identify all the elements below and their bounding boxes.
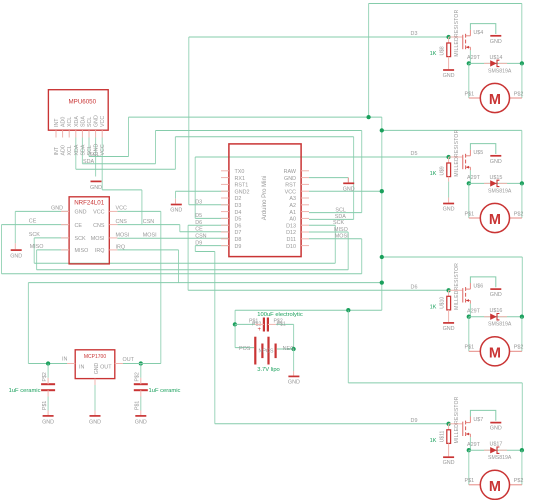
svg-text:SMS819A: SMS819A [488,68,512,74]
svg-text:GND: GND [490,426,502,432]
wire GND drop [14,211,16,243]
stub C3 right [268,323,276,325]
ground right of Arduino [343,183,355,192]
svg-text:D3: D3 [235,203,242,209]
svg-text:GND: GND [443,326,455,332]
svg-text:D6: D6 [235,223,242,229]
wire VCC right to trunk [309,190,382,192]
pin stub Arduino right [301,231,309,233]
pin stub Arduino left [221,245,229,247]
ground transistor U$5 [490,156,502,165]
IC MPU6050 [48,90,108,131]
svg-text:Arduino Pro Mini: Arduino Pro Mini [262,176,268,220]
svg-text:GND: GND [10,253,22,259]
wire bus B (MISO) [37,269,349,271]
wire NEG to GND [293,349,295,371]
stub GND [14,243,16,249]
wire VBAT down to diode U$14 [521,4,523,64]
junction NEG/GND [291,347,295,351]
pin stub MPU GND [95,130,97,137]
capacitor C3 100uF electrolytic [249,318,286,334]
svg-text:A3: A3 [289,196,296,202]
svg-text:XCL: XCL [67,117,73,127]
motor MD6 [465,337,524,366]
wire VCC row y190 [102,189,142,191]
svg-text:M: M [489,479,501,495]
svg-text:D9: D9 [235,244,242,250]
junction POS/cap [233,322,237,326]
IC U1 Arduino Pro Mini [229,144,301,257]
capacitor C1 1uF ceramic [41,372,55,410]
stub res top [448,424,450,430]
wire NRF VCC row [117,210,161,212]
wire riser IRQ down [178,250,180,283]
svg-text:U$16: U$16 [490,308,503,314]
wire drain to ground [470,277,495,287]
svg-text:A2: A2 [289,203,296,209]
motor MD9 [465,470,524,499]
stub C3 left [255,323,264,325]
svg-text:MOSI: MOSI [91,236,105,242]
svg-text:A29T: A29T [467,55,481,61]
svg-text:TX0: TX0 [235,169,245,175]
wire MPU XDA pin drop [75,138,77,170]
wire POS drop2 [234,324,236,347]
wire NRF MOSI to Arduino D8 [117,237,229,239]
wire net D9 to resistor U$11 [215,423,449,425]
wire net D6 row [188,224,229,226]
junction diode anode [467,315,471,319]
svg-text:CNS: CNS [116,219,128,225]
svg-text:GND: GND [89,419,101,425]
svg-text:RST1: RST1 [235,183,249,189]
wire into MCP IN [28,363,75,365]
wire net D9 jog down [194,246,196,252]
wire riser MISO [36,250,38,270]
pin stub MPU INT [55,130,57,137]
svg-text:1K: 1K [430,171,437,177]
wire down to diode U$16 [521,257,523,317]
wire to motor P$2 [521,450,523,485]
svg-text:D4: D4 [235,210,242,216]
stub MCP GND [94,379,96,385]
svg-text:MILLEDRESISTOR: MILLEDRESISTOR [454,9,460,56]
stub P$2 [510,350,522,352]
stub diode anode [484,449,490,451]
wire diode row [469,182,522,184]
wire drain to ground [470,24,495,34]
svg-text:D11: D11 [287,237,297,243]
stub res bottom [448,57,450,70]
stub cap bottom [47,390,49,396]
pin stub Arduino left [221,204,229,206]
pin stub MPU VCC [101,130,103,137]
wire MPU SDA pin drop [81,138,83,164]
wire net D3 to resistor U$8 [189,36,449,38]
svg-text:SCL: SCL [87,145,93,155]
svg-text:MISO: MISO [75,248,89,254]
svg-text:D5: D5 [195,213,202,219]
svg-text:SCK: SCK [29,232,40,238]
ground transistor U$4 [490,36,502,45]
wire source to diode row [469,170,471,183]
svg-text:U$17: U$17 [490,442,503,448]
svg-text:POS: POS [263,348,274,354]
junction MCP OUT [139,361,143,365]
wire NRF CE row [2,224,69,226]
battery BAT1 3.7V lipo [239,337,294,365]
svg-text:U$9: U$9 [440,166,446,175]
stub cap top [47,378,49,384]
wire D11 MOSI row [309,238,362,240]
wire net D9 jog right [195,251,215,253]
svg-text:GND: GND [490,292,502,298]
svg-text:VCC: VCC [93,210,104,216]
svg-text:XCL: XCL [67,145,73,155]
stub diode anode [484,62,490,64]
svg-text:SCK: SCK [75,236,86,242]
stub res top [448,157,450,163]
wire A0 SDA row [309,218,354,220]
transistor U$6 A29T [449,283,484,314]
wire MPU GND drop [95,138,97,177]
wire source to diode row [469,437,471,450]
svg-text:P$1: P$1 [465,478,475,484]
wire bus y130 [156,130,362,132]
transistor U$7 A29T [449,417,484,448]
wire down to diode U$17 [521,383,523,450]
ground NRF [10,250,22,259]
stub res top [448,290,450,296]
svg-text:AD0: AD0 [61,117,67,127]
stub NEG GND [293,371,295,376]
diode U$15 SMS819A [484,175,512,195]
wire VBAT feed block2 [382,129,522,131]
svg-text:U$7: U$7 [473,417,483,423]
wire to motor P$2 [521,183,523,218]
wire drain to ground [470,410,495,420]
ground battery NEG [288,376,300,385]
svg-text:GND: GND [90,185,102,191]
svg-text:SCK: SCK [333,220,344,226]
pin stub Arduino right [301,183,309,185]
svg-text:OUT: OUT [123,357,135,363]
wire net H1 upper bus [129,116,382,118]
pin stub Arduino left [221,197,229,199]
wire battery POS rail [235,309,382,311]
svg-text:VCC: VCC [100,144,106,155]
svg-text:GND: GND [75,210,87,216]
stub GND2 [175,199,177,204]
svg-text:D13: D13 [286,223,296,229]
wire diode row [469,316,522,318]
junction VBAT/H1 [366,115,370,119]
svg-text:1uF ceramic: 1uF ceramic [9,388,41,394]
svg-text:U$4: U$4 [473,30,483,36]
resistor U$10 1K [430,263,460,311]
wire riser SDA x155 [155,131,157,164]
wire D12 MISO row [309,231,348,233]
svg-text:MOSI: MOSI [116,232,130,238]
svg-text:U$8: U$8 [440,46,446,55]
svg-text:RST: RST [285,183,296,189]
svg-text:MISO: MISO [334,227,348,233]
diode U$16 SMS819A [484,308,512,328]
svg-text:IN: IN [79,365,84,371]
svg-text:VCC: VCC [116,206,127,212]
stub diode cathode [499,182,507,184]
pin stub MPU SDA [81,130,83,137]
svg-text:1K: 1K [430,438,437,444]
wire NRF IRQ row [117,249,178,251]
stub P$1 [469,97,481,99]
wire net D6 trunk [187,225,189,290]
IC MCP1700 [75,350,115,379]
wire bus D (VBAT to MCP IN) [28,282,381,284]
wire net D6 to resistor U$10 [188,289,449,291]
stub P$1 [469,217,481,219]
svg-text:IRQ: IRQ [116,244,126,250]
wire bus C (MOSI/CE) [2,273,362,275]
wire drain to ground [470,144,495,154]
wire riser CE far-left [1,225,3,274]
pin stub Arduino left [221,211,229,213]
svg-text:GND: GND [490,39,502,45]
wire to motor P$2 [521,63,523,98]
stub cap gnd [47,411,49,416]
pin stub MPU AD0 [62,130,64,137]
svg-text:A29T: A29T [467,308,481,314]
ground C2 [135,416,147,426]
pin stub NRF left [61,224,69,226]
pin stub Arduino right [301,177,309,179]
svg-text:SMS819A: SMS819A [488,188,512,194]
svg-text:GND: GND [170,208,182,214]
junction diode cathode [520,315,524,319]
svg-text:CSN: CSN [195,233,206,239]
wire riser x354 to A0 [353,137,355,220]
junction MCP IN [46,361,50,365]
pin stub Arduino left [221,238,229,240]
svg-text:D6: D6 [195,220,202,226]
junction diode cathode [520,61,524,65]
svg-text:GND: GND [284,176,296,182]
wire net D9 row [195,245,229,247]
svg-text:NEG: NEG [283,346,295,352]
junction diode anode [467,181,471,185]
junction trunk/bus D [380,280,384,284]
svg-text:IN: IN [62,357,67,363]
wire to motor P$1 [468,63,470,98]
svg-text:SCL: SCL [335,207,346,213]
svg-text:P$2: P$2 [514,345,524,351]
wire bus y137 [175,136,353,138]
svg-text:D10: D10 [286,244,296,250]
junction D9/resistor U$11 [446,422,450,426]
diode U$14 SMS819A [484,55,512,75]
svg-text:IRQ: IRQ [95,248,105,254]
pin stub MPU XDA [75,130,77,137]
stub res top [448,37,450,43]
stub cap top [140,378,142,384]
svg-text:NRF24L01: NRF24L01 [74,200,104,207]
svg-text:D9: D9 [195,240,202,246]
wire VCC trunk from MCP1700 OUT [160,211,162,363]
wire GND2 drop [175,191,177,199]
junction trunk/block2 feed [380,128,384,132]
svg-text:MOSI: MOSI [335,234,349,240]
svg-text:D3: D3 [195,200,202,206]
pin stub Arduino right [301,197,309,199]
resistor U$8 1K [430,9,460,57]
svg-text:INT: INT [54,118,60,127]
pin stub NRF right [109,249,117,251]
wire MCP GND down [94,385,96,411]
svg-text:MPU6050: MPU6050 [69,99,97,106]
svg-text:P$2: P$2 [514,478,524,484]
svg-text:POS: POS [239,346,251,352]
stub cap gnd [140,411,142,416]
svg-text:P$2: P$2 [514,91,524,97]
svg-text:GND: GND [443,73,455,79]
pin stub Arduino right [301,204,309,206]
svg-text:U$14: U$14 [490,55,503,61]
svg-text:A0: A0 [289,217,296,223]
wire VBAT vertical V1 [368,4,370,118]
svg-text:GND: GND [135,419,147,425]
svg-text:CE: CE [29,219,37,225]
wire cap2 from OUT [140,364,142,378]
wire net D5 trunk [194,157,196,218]
pin stub Arduino right [301,170,309,172]
wire riser x142 [141,190,143,224]
svg-text:VCC: VCC [100,116,106,127]
pin stub Arduino right [301,190,309,192]
resistor U$9 1K [430,129,460,177]
ground resistor U$8 [443,70,455,79]
stub res bottom [448,177,450,182]
svg-text:1uF ceramic: 1uF ceramic [149,388,181,394]
IC NRF24L01 [69,197,109,264]
svg-text:MOSI: MOSI [143,233,157,239]
wire net D3 row [189,204,229,206]
transistor U$4 A29T [449,30,484,61]
svg-text:MILLEDRESISTOR: MILLEDRESISTOR [454,396,460,443]
stub gate [449,156,463,158]
stub diode cathode [499,62,507,64]
wire bus A (SCK) [34,262,335,264]
wire net D5 row [195,217,229,219]
svg-text:MISO: MISO [30,244,44,250]
wire to motor P$1 [468,450,470,485]
pin stub Arduino left [221,224,229,226]
ground C1 [42,416,54,426]
pin stub Arduino right [301,217,309,219]
junction diode anode [467,448,471,452]
ground MCP1700 [89,416,101,426]
wire A1 SCL row [309,212,362,214]
pin stub Arduino left [221,231,229,233]
svg-text:GND: GND [443,460,455,466]
svg-text:M: M [489,346,501,362]
svg-text:XDA: XDA [74,144,80,155]
wire riser x362 to A1 [361,131,363,213]
svg-text:SDA: SDA [83,159,94,165]
wire down-left to MCP IN [27,283,29,364]
svg-text:MILLEDRESISTOR: MILLEDRESISTOR [454,129,460,176]
svg-text:D2: D2 [235,196,242,202]
svg-text:RX1: RX1 [235,176,246,182]
stub res gnd [448,198,450,203]
pin stub Arduino left [221,190,229,192]
svg-text:D6: D6 [411,284,418,290]
svg-text:+: + [258,327,262,333]
wire diode row [469,62,522,64]
wire down from POS rail [347,310,349,383]
wire to motor P$1 [468,183,470,218]
svg-text:GND: GND [288,380,300,386]
ground transistor U$6 [490,289,502,298]
pin stub Arduino right [301,238,309,240]
pin stub MCP IN [67,363,75,365]
svg-text:SMS819A: SMS819A [488,322,512,328]
stub diode anode [484,316,490,318]
wire D13 SCK row [309,224,335,226]
ground resistor U$10 [443,323,455,332]
pin stub NRF left [61,237,69,239]
wire net XDA row [76,168,176,170]
svg-text:GND: GND [343,187,355,193]
pin stub NRF right [109,237,117,239]
stub P$2 [510,97,522,99]
wire net SDA row [82,163,155,165]
svg-text:GND: GND [94,115,100,127]
pin stub Arduino right [301,224,309,226]
wire cap to NEG [293,324,295,349]
svg-text:AD0: AD0 [61,145,67,155]
svg-text:GND2: GND2 [235,189,250,195]
svg-text:CSN: CSN [143,219,154,225]
stub gate [449,289,463,291]
stub cap bottom [140,390,142,396]
svg-text:GND: GND [94,144,100,156]
junction trunk/block3 feed [380,255,384,259]
stub P$2 [510,217,522,219]
wire battery NEG [277,348,294,350]
wire MCP OUT row [123,363,161,365]
wire net D9 trunk [214,252,216,424]
svg-text:SMS819A: SMS819A [488,455,512,461]
svg-text:U$11: U$11 [440,430,446,442]
wire source to diode row [469,50,471,63]
svg-text:A1: A1 [289,210,296,216]
pin stub NRF left [61,249,69,251]
junction trunk/VCC [380,189,384,193]
svg-text:MILLEDRESISTOR: MILLEDRESISTOR [454,263,460,310]
wire CSN to Arduino D7 [180,231,229,233]
pin stub Arduino right [301,211,309,213]
svg-text:MCP1700: MCP1700 [84,354,106,360]
svg-text:VCC: VCC [285,189,296,195]
wire GND right row [309,177,348,179]
svg-text:D3: D3 [411,31,418,37]
wire to battery POS [235,347,254,349]
svg-text:M: M [489,92,501,108]
svg-text:1K: 1K [430,305,437,311]
wire res to gnd [448,182,450,198]
svg-text:P$1: P$1 [465,211,475,217]
svg-text:GND: GND [490,159,502,165]
